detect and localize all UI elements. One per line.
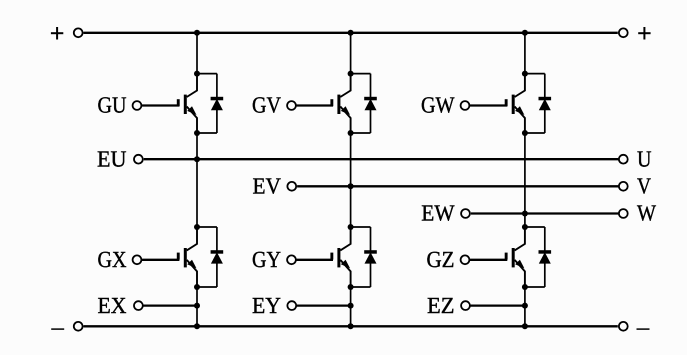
svg-text:EU: EU — [97, 146, 127, 171]
label: + (right) — [638, 27, 650, 40]
svg-text:GW: GW — [421, 93, 455, 118]
terminal circle: + left — [74, 28, 83, 37]
IGBT GZ — [505, 227, 525, 287]
IGBT GU — [177, 74, 197, 133]
junction: node V output on leg — [348, 183, 354, 189]
junction: node U output on leg — [194, 156, 200, 162]
diode DZ — [525, 227, 551, 287]
terminal circle: GU — [133, 101, 142, 110]
junction: emitter node EU — [194, 130, 200, 136]
junction: EZ tap on leg — [522, 303, 528, 309]
junction: collector node GW — [522, 71, 528, 77]
terminal circle: EV — [287, 182, 296, 191]
terminal circle: GZ — [461, 255, 470, 264]
wire: gate lead GY — [296, 259, 333, 261]
terminal circle: W output — [619, 209, 628, 218]
wire: EW / phase W output line — [471, 212, 619, 214]
wire: EZ lead — [470, 304, 525, 306]
wire: emitter GY to - bus — [350, 287, 352, 326]
wire: EX lead — [143, 304, 197, 306]
wire: emitter GZ to - bus — [524, 287, 526, 326]
svg-text:GV: GV — [252, 93, 281, 118]
terminal circle: U output — [619, 155, 628, 164]
terminal circle: EY — [287, 301, 296, 310]
svg-text:GY: GY — [252, 247, 281, 272]
terminal circle: GW — [461, 101, 470, 110]
svg-text:EW: EW — [421, 201, 454, 226]
junction: EY tap on leg — [348, 303, 354, 309]
junction: emitter node EY — [348, 284, 354, 290]
label: - (right) — [637, 328, 650, 330]
junction: collector node GU — [194, 71, 200, 77]
svg-text:EX: EX — [98, 293, 127, 318]
wire: gate lead GV — [296, 104, 333, 106]
svg-text:EZ: EZ — [427, 293, 455, 318]
svg-text:EV: EV — [253, 174, 282, 199]
terminal circle: - right — [619, 322, 628, 331]
svg-text:U: U — [637, 146, 652, 171]
IGBT GW — [505, 74, 525, 133]
svg-text:V: V — [637, 174, 651, 199]
wire: emitter GX to - bus — [196, 287, 198, 326]
wire: +bus to collector GV (V leg) — [350, 33, 352, 74]
wire: gate lead GW — [469, 104, 507, 106]
terminal circle: EZ — [461, 301, 470, 310]
terminal circle: GY — [287, 255, 296, 264]
terminal circle: + right — [619, 28, 628, 37]
wire: gate lead GZ — [469, 259, 507, 261]
wire: EU / phase U output line — [144, 158, 619, 160]
junction: emitter node EW — [522, 130, 528, 136]
label: + (left) — [51, 27, 63, 40]
junction: W leg at + bus — [522, 30, 528, 36]
terminal circle: EU — [134, 155, 143, 164]
label: - (left) — [51, 328, 64, 330]
junction: collector node GV — [348, 71, 354, 77]
svg-text:GZ: GZ — [427, 247, 455, 272]
junction: collector node GX — [194, 224, 200, 230]
diode DX — [197, 227, 223, 287]
terminal circle: EX — [134, 301, 143, 310]
junction: node W output on leg — [522, 211, 528, 217]
wire: gate lead GU — [141, 104, 179, 106]
junction: U leg at - bus — [194, 323, 200, 329]
junction: U leg at + bus — [194, 30, 200, 36]
wire: gate lead GX — [141, 259, 179, 261]
junction: emitter node EZ — [522, 284, 528, 290]
diode DY — [351, 227, 377, 287]
IGBT GX — [177, 227, 197, 287]
junction: collector node GY — [348, 224, 354, 230]
terminal circle: - left — [74, 322, 83, 331]
svg-text:W: W — [637, 201, 656, 226]
junction: EX tap on leg — [194, 303, 200, 309]
wire: EY lead — [296, 304, 350, 306]
wire: - bus (bottom rail) — [84, 325, 618, 327]
IGBT GV — [330, 74, 350, 133]
terminal circle: EW — [461, 209, 470, 218]
junction: W leg at - bus — [522, 323, 528, 329]
wire: U leg emitter GU to collector GX — [196, 133, 198, 227]
terminal circle: GV — [287, 101, 296, 110]
junction: emitter node EX — [194, 284, 200, 290]
wire: +bus to collector GU (U leg) — [196, 33, 198, 74]
terminal circle: V output — [619, 182, 628, 191]
junction: V leg at - bus — [348, 323, 354, 329]
svg-text:GX: GX — [98, 247, 127, 272]
terminal circle: GX — [133, 255, 142, 264]
diode DV — [351, 74, 377, 133]
svg-text:EY: EY — [252, 293, 281, 318]
diode DU — [197, 74, 223, 133]
junction: V leg at + bus — [348, 30, 354, 36]
IGBT GY — [330, 227, 350, 287]
junction: collector node GZ — [522, 224, 528, 230]
diode DW — [525, 74, 551, 133]
wire: +bus to collector GW (W leg) — [524, 33, 526, 74]
svg-text:GU: GU — [98, 93, 127, 118]
wire: V leg emitter GV to collector GY — [350, 133, 352, 227]
wire: EV / phase V output line — [297, 185, 618, 187]
wire: + bus (top rail) — [84, 32, 618, 34]
junction: emitter node EV — [348, 130, 354, 136]
wire: W leg emitter GW to collector GZ — [524, 133, 526, 227]
